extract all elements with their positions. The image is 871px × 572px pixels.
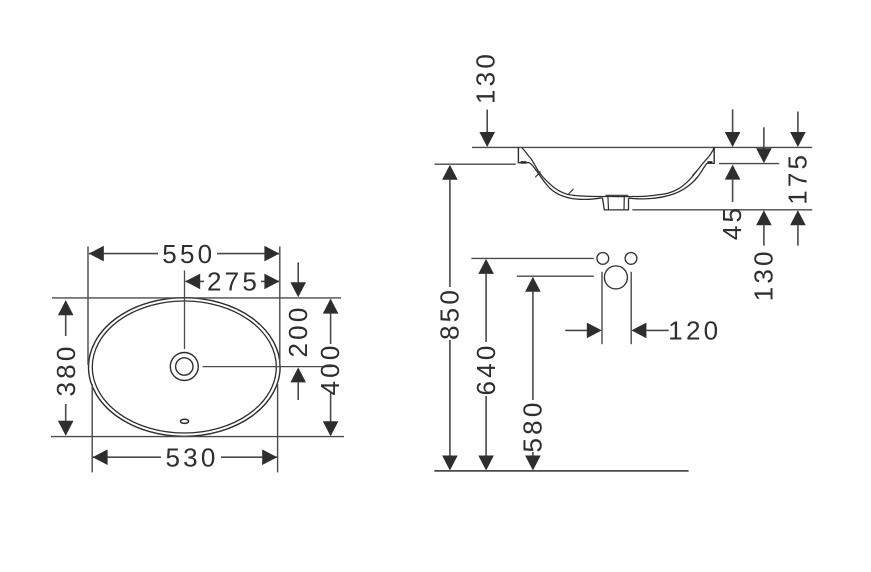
dimension 175 xyxy=(783,112,813,246)
extension line 550 left xyxy=(87,247,89,366)
faucet hole circle right xyxy=(625,253,637,265)
drain inner circle xyxy=(176,358,193,375)
svg-text:550: 550 xyxy=(162,239,215,269)
supply level line 580 xyxy=(517,275,594,277)
svg-text:850: 850 xyxy=(435,287,465,340)
dimension 275 xyxy=(185,267,279,297)
overflow slot xyxy=(180,419,188,423)
counter surface line right xyxy=(719,163,779,165)
floor line xyxy=(434,470,688,472)
svg-text:580: 580 xyxy=(518,400,548,453)
supply level line 640 xyxy=(471,257,593,259)
dimension 580 xyxy=(518,277,548,471)
extension line 120 left xyxy=(601,272,603,344)
svg-text:175: 175 xyxy=(783,152,813,205)
extension line 120 right xyxy=(630,272,632,344)
dimension 45 xyxy=(717,109,747,240)
svg-text:130: 130 xyxy=(749,248,779,301)
faucet hole circle left xyxy=(597,253,609,265)
dimension 120 xyxy=(565,316,721,346)
extension line 550 right xyxy=(279,247,281,366)
svg-text:275: 275 xyxy=(207,267,260,297)
basin inner rim ellipse (plan view) xyxy=(92,301,276,433)
svg-text:120: 120 xyxy=(668,316,721,346)
dimension 130 top xyxy=(471,51,501,147)
bowl bottom extension line xyxy=(632,209,812,211)
dimension 200 xyxy=(283,263,313,401)
dimension 380 xyxy=(51,300,81,436)
horizontal drain centre line xyxy=(203,366,332,368)
basin outer rim ellipse (plan view) xyxy=(89,298,281,437)
faucet hole circle centre large xyxy=(604,266,627,289)
dimension 640 xyxy=(471,259,501,471)
svg-text:640: 640 xyxy=(471,343,501,396)
dimension 400 xyxy=(315,299,345,437)
svg-text:200: 200 xyxy=(283,305,313,358)
dimension 850 xyxy=(435,165,465,471)
dimension 130 right xyxy=(749,127,779,301)
basin cross-section profile xyxy=(518,147,714,210)
vertical centre line xyxy=(184,271,186,350)
svg-text:130: 130 xyxy=(471,51,501,104)
bottom tangent extension line xyxy=(51,436,344,438)
drain outer circle xyxy=(170,353,198,381)
svg-text:380: 380 xyxy=(51,344,81,397)
dimension 530 xyxy=(93,443,278,473)
svg-text:530: 530 xyxy=(166,443,219,473)
dimension 550 xyxy=(89,239,280,269)
counter surface line left xyxy=(435,163,516,165)
svg-text:45: 45 xyxy=(717,205,747,240)
extension line 530 right xyxy=(277,384,279,472)
top tangent extension line xyxy=(52,297,341,299)
extension line 530 left xyxy=(91,384,93,472)
countertop / rim top line xyxy=(472,146,812,148)
svg-text:400: 400 xyxy=(315,343,345,396)
